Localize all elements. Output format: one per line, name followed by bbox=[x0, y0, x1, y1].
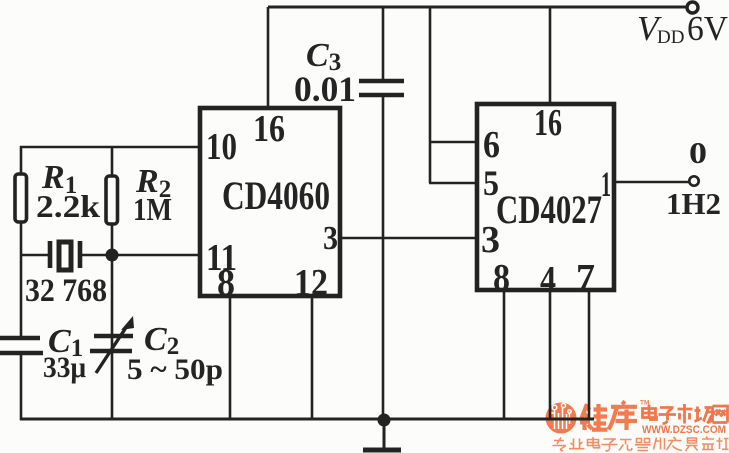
watermark 电 bbox=[643, 405, 657, 420]
capacitor C3 bbox=[359, 81, 404, 95]
resistor R1 bbox=[15, 174, 27, 222]
wire R2/C2 vertical branch bbox=[111, 147, 114, 418]
svg-text:8: 8 bbox=[217, 262, 235, 304]
watermark 库 bbox=[609, 402, 638, 431]
resistor R2 bbox=[106, 176, 118, 224]
svg-text:0.01: 0.01 bbox=[294, 69, 356, 109]
wire pin6 stub bbox=[429, 141, 477, 144]
capacitor C2 variable bbox=[90, 316, 134, 373]
ground bbox=[363, 420, 401, 450]
svg-text:3: 3 bbox=[323, 220, 338, 257]
wire rail to CD4027 pins 6,5 bbox=[429, 7, 432, 183]
svg-text:DD: DD bbox=[657, 27, 684, 48]
wire C3 branch lower to ground rail bbox=[382, 95, 385, 419]
wire CD4027 pin7 down bbox=[588, 290, 591, 419]
svg-text:6: 6 bbox=[483, 124, 500, 166]
wire pin10 top-left horizontal bbox=[20, 146, 200, 149]
wire CD4060 pin12 down bbox=[311, 296, 314, 419]
IC U2 CD4027 box bbox=[477, 104, 614, 290]
wire pin1 output bbox=[614, 181, 689, 184]
svg-text:33μ: 33μ bbox=[43, 351, 86, 384]
svg-text:0: 0 bbox=[689, 135, 707, 170]
wire CD4027 pin8 down bbox=[503, 290, 506, 419]
watermark slogan row bbox=[553, 437, 729, 452]
crystal XT 32768 bbox=[50, 241, 80, 270]
svg-text:5: 5 bbox=[483, 163, 499, 203]
svg-text:CD4027: CD4027 bbox=[496, 187, 602, 232]
svg-text:2.2k: 2.2k bbox=[36, 188, 100, 224]
svg-text:4: 4 bbox=[540, 259, 556, 301]
watermark 维 bbox=[580, 404, 608, 430]
svg-text:1M: 1M bbox=[133, 191, 172, 227]
wire CD4027 pin16 to rail bbox=[549, 7, 552, 104]
svg-text:1H2: 1H2 bbox=[666, 186, 721, 221]
wire pin3 to pin3 bbox=[340, 237, 477, 240]
VDD terminal bbox=[687, 2, 698, 13]
watermark 场 bbox=[695, 407, 715, 424]
wire pin5 stub bbox=[429, 182, 477, 185]
watermark 网 bbox=[713, 406, 728, 423]
output terminal bbox=[689, 176, 698, 185]
IC U1 CD4060 box bbox=[200, 108, 340, 296]
wire left vertical branch bbox=[20, 146, 23, 420]
wire CD4060 pin16 to rail bbox=[267, 7, 270, 108]
watermark 市 bbox=[678, 404, 693, 424]
svg-text:7: 7 bbox=[576, 257, 595, 299]
watermark logo circle bbox=[546, 403, 577, 434]
svg-text:8: 8 bbox=[493, 257, 510, 299]
svg-text:CD4060: CD4060 bbox=[222, 173, 330, 218]
node crystal junction bbox=[106, 249, 119, 262]
svg-text:WWW.DZSC.COM: WWW.DZSC.COM bbox=[642, 424, 726, 436]
svg-text:5 ~ 50p: 5 ~ 50p bbox=[127, 353, 223, 386]
capacitor C1 bbox=[0, 338, 43, 353]
svg-text:1: 1 bbox=[601, 164, 611, 204]
wire crystal lead right to pin11 bbox=[82, 254, 200, 257]
wire CD4060 pin8 down bbox=[229, 296, 232, 419]
svg-text:3: 3 bbox=[481, 219, 500, 261]
wire crystal lead left bbox=[21, 254, 48, 257]
wire CD4027 pin4 down bbox=[549, 290, 552, 419]
svg-text:6V: 6V bbox=[687, 9, 728, 48]
label VDD 6V bbox=[637, 9, 728, 48]
svg-text:10: 10 bbox=[206, 126, 237, 168]
wire C3 branch upper bbox=[382, 7, 385, 80]
svg-text:16: 16 bbox=[534, 102, 562, 144]
node ground junction bbox=[378, 414, 391, 427]
svg-text:16: 16 bbox=[253, 108, 285, 150]
svg-text:32 768: 32 768 bbox=[25, 273, 107, 309]
watermark 子 bbox=[659, 408, 677, 424]
wire bottom ground rail bbox=[20, 418, 594, 421]
wire top VDD rail bbox=[268, 6, 687, 9]
